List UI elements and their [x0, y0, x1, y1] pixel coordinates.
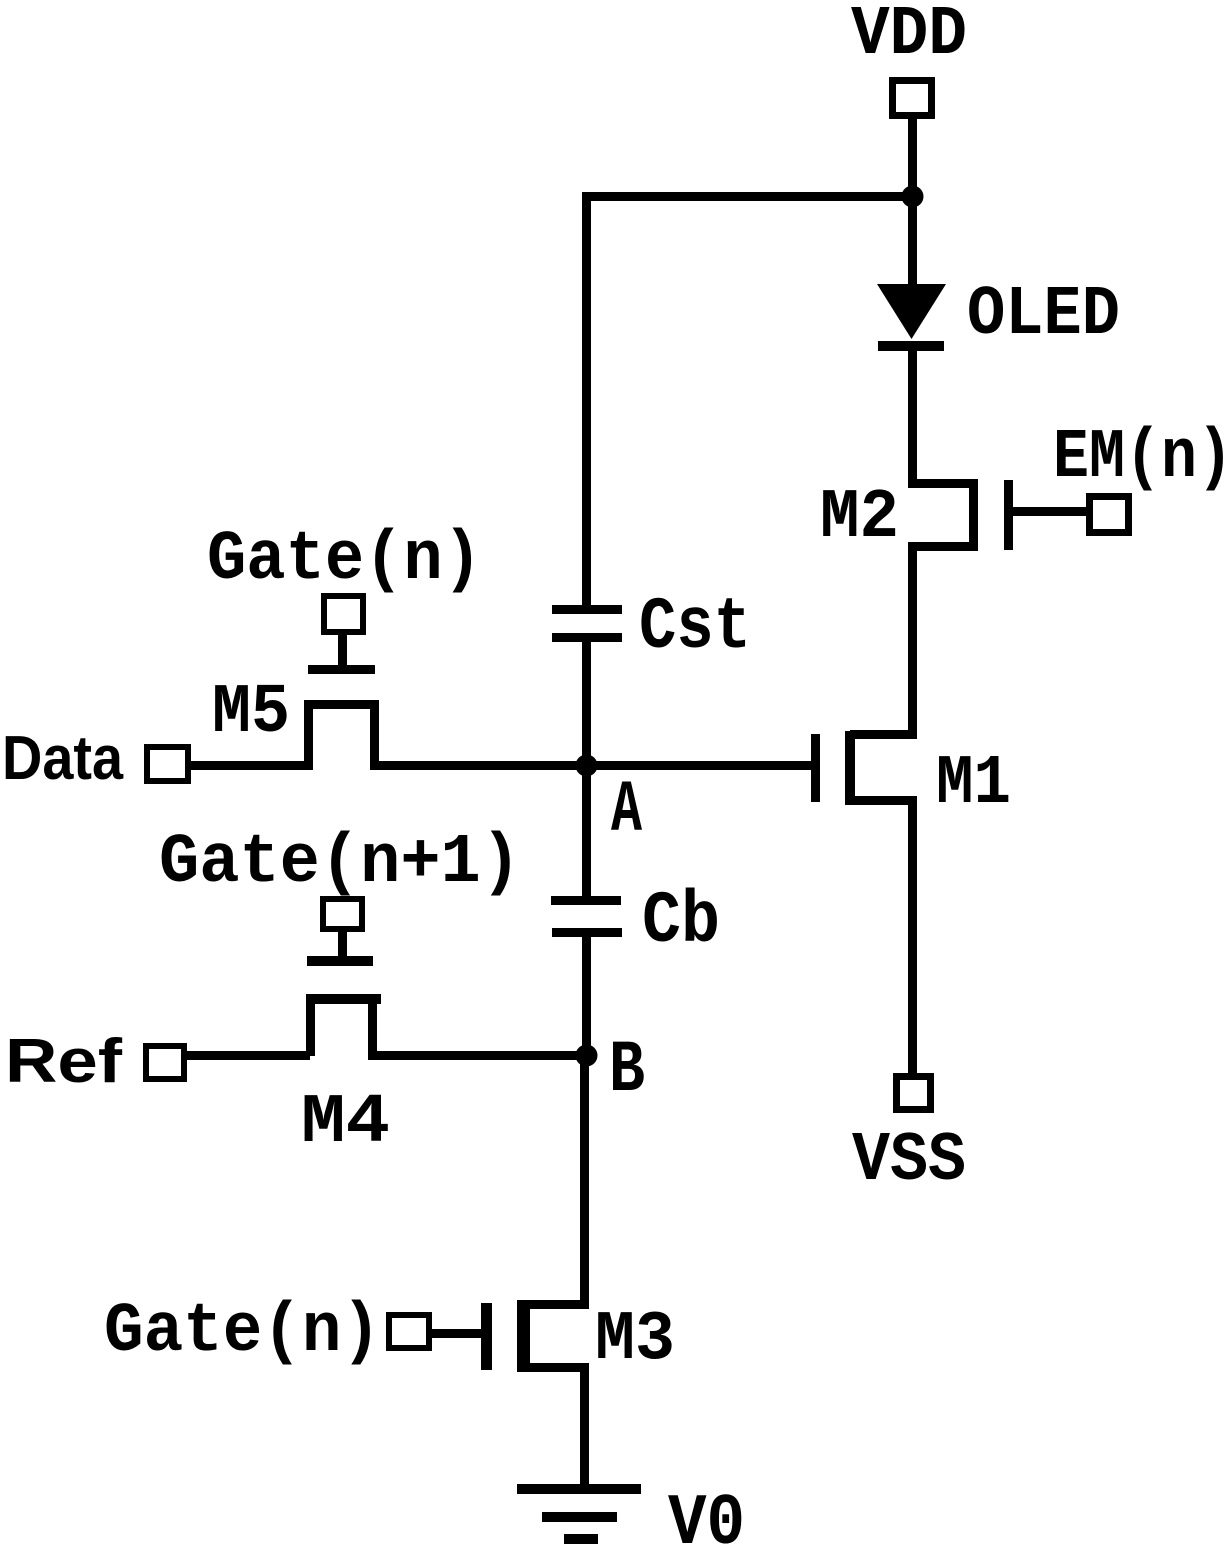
svg-text:Ref: Ref	[5, 1027, 122, 1096]
transistor M1 source stub	[850, 796, 917, 805]
svg-text:A: A	[611, 769, 642, 852]
wire Gate(n) terminal to M3 gate	[430, 1329, 481, 1338]
terminal Gate(n) top	[324, 596, 363, 632]
wire M4 to node B	[368, 1051, 586, 1060]
ground bar 3	[564, 1534, 598, 1544]
transistor M5 channel hump right	[370, 700, 379, 770]
svg-text:VDD: VDD	[851, 0, 967, 75]
svg-text:M5: M5	[212, 674, 290, 753]
transistor M2 source stub	[908, 542, 978, 551]
svg-text:B: B	[609, 1029, 645, 1112]
wire OLED to M2	[908, 349, 917, 483]
svg-text:OLED: OLED	[967, 276, 1120, 355]
wire node B down to M3	[580, 1056, 589, 1309]
terminal Data	[147, 747, 188, 781]
transistor M2 channel	[969, 479, 978, 551]
svg-text:Gate(n+1): Gate(n+1)	[159, 824, 521, 903]
transistor M1 channel	[845, 731, 855, 805]
diode OLED cathode bar	[878, 341, 944, 351]
capacitor Cb bottom plate	[552, 928, 622, 937]
wire node A to M1 gate	[586, 761, 811, 770]
terminal Ref	[146, 1046, 184, 1079]
transistor M3 drain stub	[526, 1300, 589, 1309]
wire M1 to VSS	[908, 805, 917, 1073]
wire Cst to node A	[582, 642, 591, 771]
transistor M5 gate bar	[308, 665, 375, 674]
transistor M5 channel hump left	[304, 700, 313, 770]
svg-text:EM(n): EM(n)	[1053, 419, 1230, 498]
svg-text:VSS: VSS	[852, 1122, 966, 1201]
node B junction dot	[576, 1045, 598, 1067]
terminal VSS	[897, 1077, 931, 1110]
svg-text:V0: V0	[668, 1483, 745, 1547]
svg-text:Cb: Cb	[642, 880, 720, 963]
svg-text:M4: M4	[301, 1084, 390, 1163]
svg-text:Gate(n): Gate(n)	[104, 1293, 381, 1372]
ground bar 2	[542, 1512, 617, 1522]
transistor M4 channel hump top	[306, 994, 381, 1004]
transistor M3 gate bar	[481, 1303, 492, 1370]
transistor M1 drain stub	[850, 730, 917, 739]
capacitor Cb top plate	[551, 896, 621, 905]
transistor M3 source stub	[526, 1363, 589, 1372]
terminal Gate(n+1)	[323, 899, 362, 929]
wire VDD stem	[908, 115, 917, 200]
node A junction dot	[576, 755, 598, 777]
junction dot at VDD rail	[902, 186, 924, 208]
transistor M2 gate bar	[1004, 480, 1013, 550]
transistor M5 gate stem	[338, 631, 347, 665]
transistor M1 gate bar	[811, 734, 820, 802]
capacitor Cst top plate	[552, 605, 622, 614]
transistor M4 gate bar	[307, 956, 373, 966]
svg-text:M3: M3	[595, 1301, 675, 1380]
wire Ref terminal to M4	[187, 1051, 310, 1060]
wire top horizontal	[582, 192, 917, 201]
svg-text:Cst: Cst	[639, 586, 751, 669]
wire M2 to M1	[908, 551, 917, 739]
wire Data terminal to M5	[191, 761, 308, 770]
transistor M2 drain stub	[908, 479, 978, 488]
wire Cb to node B	[582, 937, 591, 1061]
terminal Gate(n) bottom	[389, 1315, 429, 1348]
transistor M3 channel	[517, 1300, 530, 1372]
svg-text:Gate(n): Gate(n)	[207, 521, 482, 600]
svg-text:Data: Data	[2, 724, 123, 793]
wire center column top (from corner down to Cst)	[582, 192, 591, 605]
diode OLED anode triangle	[877, 284, 946, 339]
transistor M4 channel hump right	[368, 994, 377, 1056]
svg-text:M2: M2	[820, 479, 899, 558]
transistor M5 channel hump top	[304, 700, 379, 709]
wire node A to Cb	[582, 766, 591, 898]
terminal EM(n)	[1090, 497, 1129, 533]
wire M3 to ground	[580, 1372, 589, 1489]
wire M5 to node A	[370, 761, 586, 770]
terminal VDD	[893, 81, 932, 116]
transistor M4 channel hump left	[306, 994, 315, 1056]
svg-text:M1: M1	[936, 745, 1011, 824]
ground bar 1	[517, 1484, 641, 1494]
transistor M4 gate stem	[338, 928, 347, 960]
wire VDD rail down to OLED	[908, 196, 917, 285]
wire M2 gate to EM(n) terminal	[1013, 507, 1090, 516]
capacitor Cst bottom plate	[552, 633, 622, 642]
